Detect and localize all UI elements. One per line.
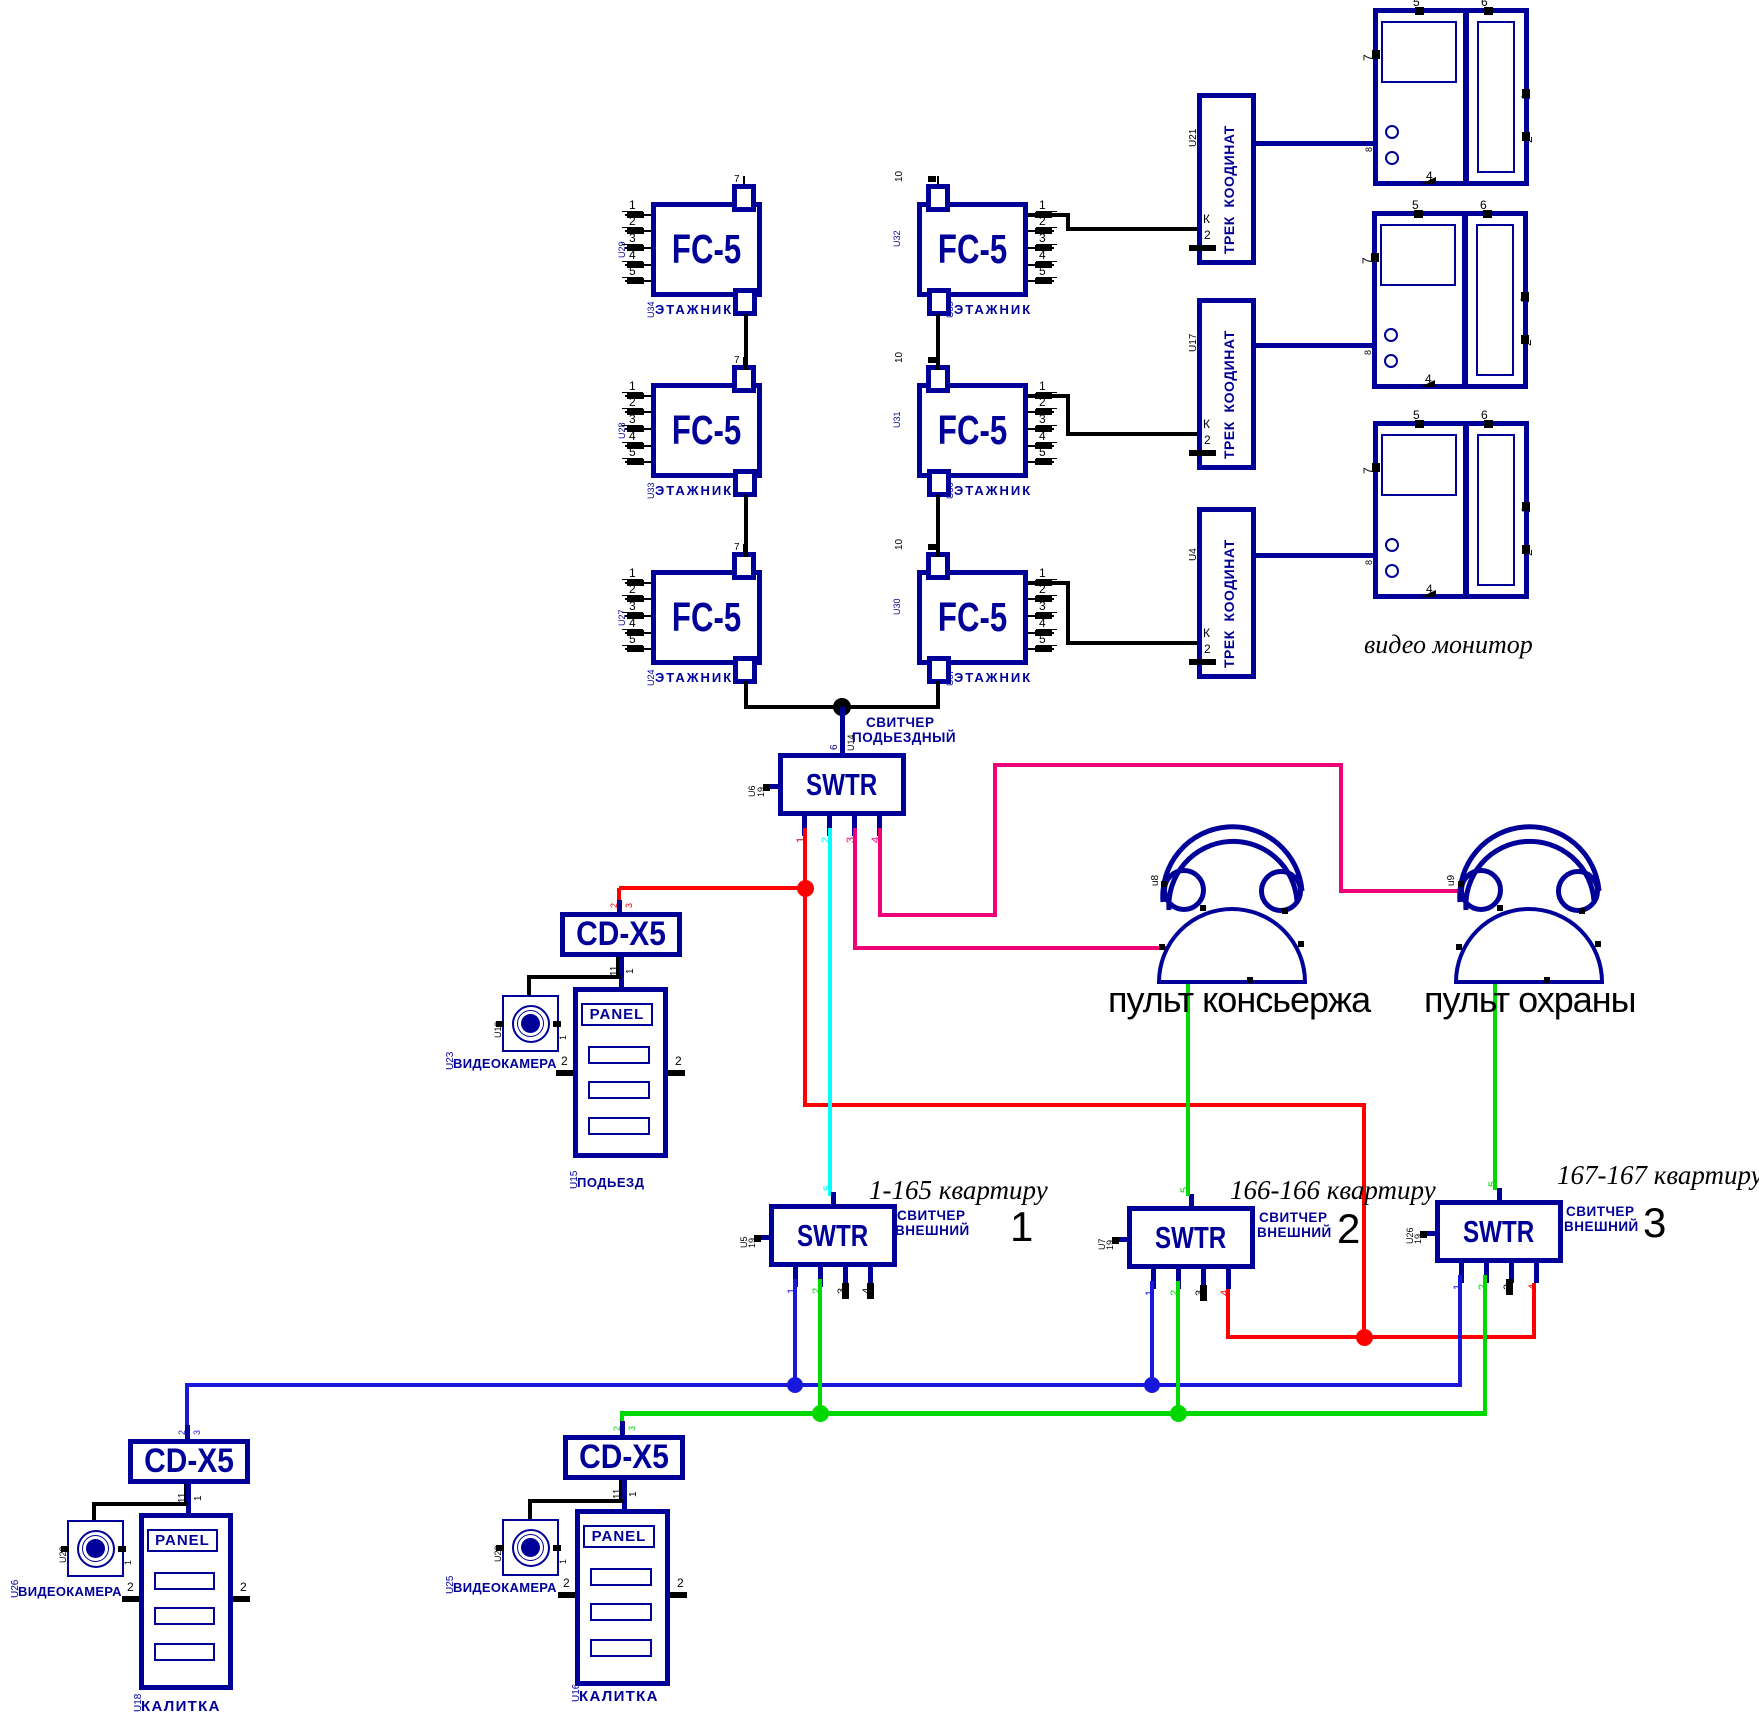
U27 top port pin lead bbox=[743, 544, 745, 552]
U4 pin К label bbox=[1203, 627, 1210, 639]
gate left camera outer ring bbox=[77, 1530, 115, 1568]
U28 bottom port designator U33 bbox=[647, 482, 656, 499]
U17 pin 2 stub bbox=[1189, 450, 1216, 456]
U32 pin 3 number bbox=[1039, 232, 1046, 244]
SWTR 2 pin 4 number bbox=[1220, 1290, 1231, 1296]
label ВНЕШНИЙ 2 bbox=[1257, 1226, 1332, 1240]
wire red to switcher 3 pin 4 bbox=[1532, 1283, 1536, 1337]
U31 label ЭТАЖНИК bbox=[954, 484, 1032, 497]
U21 designator U21 bbox=[1189, 129, 1199, 147]
red junction node 1 bbox=[797, 880, 814, 897]
monitor 3 pin 7 mark bbox=[1372, 463, 1380, 472]
U29 pin 1 lead bbox=[625, 214, 651, 216]
main SWTR bottom pin 2 stub bbox=[827, 816, 832, 836]
U32 pin 1 bar bbox=[1035, 212, 1052, 218]
entrance camera designator U23 bbox=[446, 1052, 456, 1070]
U27 pin 1 underline bbox=[622, 579, 643, 580]
label ВИДЕОКАМЕРА gate middle bbox=[453, 1581, 557, 1594]
U21 label ТРЕК КООДИНАТ bbox=[1222, 125, 1236, 254]
video monitor monitor 1 outer box bbox=[1373, 8, 1529, 186]
label ВИДЕОКАМЕРА entrance bbox=[453, 1057, 557, 1070]
monitor 3 pin 1 mark bbox=[1522, 502, 1530, 511]
SWTR 3 pin 1 number bbox=[1453, 1284, 1464, 1290]
U27 pin 2 lead bbox=[625, 598, 651, 600]
gate middle panel button slot 2 bbox=[590, 1603, 652, 1621]
label видео монитор bbox=[1364, 632, 1533, 658]
U27 pin 5 lead bbox=[625, 648, 651, 650]
monitor 2 pin 5 mark bbox=[1414, 210, 1423, 218]
U29 pin 2 underline bbox=[622, 227, 643, 228]
gate middle CD-X5 bottom pin label 11 bbox=[613, 1489, 623, 1499]
monitor 2 pin 1 label bbox=[1519, 296, 1531, 303]
U29 pin 1 underline bbox=[622, 211, 643, 212]
monitor 3 pin 7 label bbox=[1362, 467, 1374, 474]
SWTR 2 bottom pin 4 stub bbox=[1226, 1269, 1231, 1289]
U27 pin 4 bar bbox=[627, 630, 644, 636]
U28 pin 3 bar bbox=[627, 426, 644, 432]
concierge console handset designator u8 bbox=[1151, 875, 1161, 886]
U31 pin 5 lead bbox=[1028, 461, 1054, 463]
wire magenta down to guard bbox=[1339, 763, 1343, 893]
switcher SWTR 3 box bbox=[1435, 1200, 1563, 1263]
junction node entrance bus bbox=[833, 698, 851, 716]
wire switcher 2 pin1 blue down bbox=[1150, 1281, 1154, 1387]
switcher main SWTR box bbox=[778, 753, 906, 816]
U30 pin 1 lead bbox=[1028, 582, 1054, 584]
U4 pin 2 stub bbox=[1189, 659, 1216, 665]
video monitor monitor 3 outer box bbox=[1373, 421, 1529, 599]
switcher 2 left pin label 19 bbox=[1106, 1240, 1115, 1250]
monitor 2 pin 6 label bbox=[1480, 199, 1487, 211]
U28 pin 5 underline bbox=[622, 458, 643, 459]
wire gate left CD-X5 to camera segment b bbox=[92, 1502, 96, 1522]
SWTR 2 top pin stub bbox=[1189, 1194, 1194, 1206]
wire U31 pin1 to coordinate tracker segment b bbox=[1066, 394, 1070, 436]
gate middle panel left pin label 2 bbox=[563, 1577, 570, 1589]
entrance camera U9 lens bbox=[521, 1014, 540, 1033]
U27 bottom port bbox=[733, 656, 757, 684]
gate left panel right pin label 2 bbox=[240, 1581, 247, 1593]
U32 pin 5 number bbox=[1039, 265, 1046, 277]
U17 designator U17 bbox=[1189, 334, 1199, 352]
entrance panel button slot 3 bbox=[588, 1117, 650, 1135]
coordinate tracker U4 box bbox=[1197, 507, 1256, 679]
monitor 2 pin 2 label bbox=[1521, 339, 1533, 346]
gate left CD-X5 top pin stub bbox=[185, 1425, 190, 1439]
wire U31 to U30 riser bbox=[936, 495, 940, 557]
U27 pin 1 number bbox=[629, 567, 636, 579]
blue junction node 2 bbox=[1144, 1377, 1160, 1393]
monitor 3 pin 2 label bbox=[1522, 549, 1534, 556]
U29 pin 5 bar bbox=[627, 278, 644, 284]
gate left camera right pin mark bbox=[118, 1546, 126, 1552]
U31 pin 2 lead bbox=[1028, 411, 1054, 413]
SWTR 3 top pin stub bbox=[1497, 1188, 1502, 1200]
switcher 2 pin3 blob bbox=[1200, 1285, 1207, 1301]
U27 pin 3 lead bbox=[625, 615, 651, 617]
U27 pin 4 number bbox=[629, 617, 636, 629]
U30 designator U30 bbox=[893, 598, 902, 615]
SWTR 1 pin 4 number bbox=[862, 1288, 873, 1294]
monitor 3 screen bbox=[1381, 434, 1457, 496]
monitor 1 pin 1 label bbox=[1520, 93, 1532, 100]
U31 top port pin 10 label bbox=[895, 352, 905, 363]
monitor 2 handset slot bbox=[1476, 224, 1514, 376]
monitor 2 pin 7 mark bbox=[1371, 253, 1379, 262]
gate middle camera left pin mark bbox=[496, 1545, 504, 1551]
main SWTR bottom pin 4 stub bbox=[877, 816, 882, 836]
door unit gate middle CD-X5 CD-X5 box bbox=[563, 1435, 685, 1480]
U29 top port pin 7 label bbox=[734, 175, 740, 185]
gate left camera middle ring bbox=[82, 1535, 109, 1562]
wire switcher 1 pin1 blue down bbox=[793, 1279, 797, 1387]
label 1-165 квартиру bbox=[869, 1177, 1048, 1204]
switcher SWTR 2 box bbox=[1127, 1206, 1255, 1269]
SWTR 1 bottom pin 2 stub bbox=[818, 1267, 823, 1287]
big number 1 bbox=[1010, 1206, 1033, 1248]
U30 pin 2 number bbox=[1039, 583, 1046, 595]
gate left panel button slot 1 bbox=[154, 1572, 215, 1590]
main SWTR left pin stub bbox=[768, 784, 778, 789]
U32 label ЭТАЖНИК bbox=[954, 303, 1032, 316]
door unit gate left CD-X5 CD-X5 box bbox=[128, 1439, 250, 1484]
floor unit U31 FC-5 box bbox=[917, 383, 1028, 478]
gate middle CD-X5 top pin label b bbox=[628, 1426, 637, 1431]
gate middle camera lens bbox=[521, 1538, 540, 1557]
monitor 2 pin 2 mark bbox=[1521, 335, 1529, 344]
U31 pin 3 bar bbox=[1035, 426, 1052, 432]
label 166-166 квартиру bbox=[1230, 1177, 1436, 1204]
label СВИТЧЕР 2 bbox=[1259, 1211, 1327, 1225]
gate left camera left pin mark bbox=[61, 1546, 69, 1552]
U21 pin 2 label bbox=[1204, 229, 1211, 241]
wire entrance bus to main switcher bbox=[840, 707, 845, 753]
U31 pin 3 number bbox=[1039, 413, 1046, 425]
wire magenta to concierge console bbox=[853, 946, 1170, 950]
U32 pin 1 number bbox=[1039, 199, 1046, 211]
wire gate left CD-X5 to camera segment a bbox=[92, 1502, 188, 1506]
main SWTR pin 3 number bbox=[846, 837, 857, 843]
gate middle panel button slot 1 bbox=[590, 1568, 652, 1586]
SWTR 3 left pin mark bbox=[1420, 1231, 1427, 1238]
U30 pin 5 number bbox=[1039, 633, 1046, 645]
U32 pin 2 underline bbox=[1036, 227, 1057, 228]
main switcher designator U6 bbox=[748, 785, 757, 797]
switcher 2 designator U7 bbox=[1098, 1238, 1107, 1250]
SWTR 2 bottom pin 2 stub bbox=[1176, 1269, 1181, 1289]
U31 pin 2 number bbox=[1039, 396, 1046, 408]
gate left panel button slot 3 bbox=[154, 1643, 215, 1661]
U28 top port pin 7 label bbox=[734, 356, 740, 366]
gate left panel PANEL title box bbox=[147, 1529, 218, 1552]
wire U27 down to entrance bus bbox=[744, 681, 748, 709]
gate middle CD-X5 bottom pin stub bbox=[619, 1480, 625, 1500]
main SWTR pin 4 number bbox=[871, 837, 882, 843]
guard console handset designator u9 bbox=[1447, 875, 1457, 886]
monitor 3 pin 5 label bbox=[1413, 409, 1420, 421]
wire blue bus to gate CD-X5 left bbox=[185, 1385, 189, 1432]
U31 bottom port designator U36 bbox=[946, 482, 955, 499]
U31 pin 3 lead bbox=[1028, 428, 1054, 430]
SWTR 3 bottom pin 1 stub bbox=[1459, 1263, 1464, 1283]
label КАЛИТКА middle bbox=[579, 1689, 659, 1704]
U29 label ЭТАЖНИК bbox=[655, 303, 733, 316]
SWTR 1 bottom pin 4 stub bbox=[868, 1267, 873, 1287]
U30 label ЭТАЖНИК bbox=[954, 671, 1032, 684]
gate left panel button slot 2 bbox=[154, 1607, 215, 1625]
wire U30 pin1 to coordinate tracker segment a bbox=[1028, 581, 1068, 585]
gate left CD-X5 bottom pin stub bbox=[184, 1484, 190, 1504]
U30 bottom port designator U37 bbox=[946, 669, 955, 686]
wire red to switcher 2 pin 4 bbox=[1226, 1289, 1230, 1337]
U32 pin 4 underline bbox=[1036, 261, 1057, 262]
U31 pin 5 number bbox=[1039, 446, 1046, 458]
wire magenta up bbox=[993, 763, 997, 917]
U29 pin 4 lead bbox=[625, 264, 651, 266]
gate middle panel designator U16 bbox=[572, 1684, 582, 1702]
wire entrance CD-X5 to panel bbox=[619, 957, 624, 992]
entrance panel designator U15 bbox=[570, 1171, 580, 1189]
U17 pin 2 label bbox=[1204, 434, 1211, 446]
main SWTR pin 1 number bbox=[796, 837, 807, 843]
floor unit U30 FC-5 box bbox=[917, 570, 1028, 665]
label ВИДЕОКАМЕРА gate left bbox=[18, 1585, 122, 1598]
monitor 1 handset slot bbox=[1477, 21, 1515, 173]
U31 pin 2 bar bbox=[1035, 409, 1052, 415]
U30 pin 3 number bbox=[1039, 600, 1046, 612]
U27 pin 3 bar bbox=[627, 613, 644, 619]
SWTR 2 bottom pin 3 stub bbox=[1201, 1269, 1206, 1289]
U32 top port pin lead bbox=[937, 176, 939, 184]
U28 pin 3 lead bbox=[625, 428, 651, 430]
gate middle camera right pin label bbox=[559, 1558, 568, 1563]
U30 pin 1 bar bbox=[1035, 580, 1052, 586]
monitor 3 pin 8 label bbox=[1365, 560, 1374, 565]
U32 pin 2 lead bbox=[1028, 230, 1054, 232]
entrance CD-X5 top pin stub bbox=[617, 900, 622, 912]
monitor 3 knob 1 bbox=[1385, 538, 1399, 552]
panel gate left panel box bbox=[139, 1513, 233, 1690]
wire gate middle CD-X5 to panel bbox=[622, 1480, 627, 1513]
U28 pin 1 number bbox=[629, 380, 636, 392]
gate middle CD-X5 bottom pin label 1 bbox=[629, 1491, 639, 1497]
entrance CD-X5 bottom pin label 1 bbox=[626, 968, 636, 974]
entrance camera U9 left pin mark bbox=[496, 1021, 504, 1027]
wire tracker U4 to monitor 3 bbox=[1251, 553, 1374, 558]
red junction node 2 bbox=[1356, 1329, 1373, 1346]
SWTR 3 bottom pin 2 stub bbox=[1484, 1263, 1489, 1283]
U30 pin 5 lead bbox=[1028, 648, 1054, 650]
U28 pin 2 bar bbox=[627, 409, 644, 415]
blue junction node 1 bbox=[787, 1377, 803, 1393]
U32 pin 5 bar bbox=[1035, 278, 1052, 284]
wire U32 to U31 riser bbox=[936, 314, 940, 370]
switcher 3 left pin label 19 bbox=[1414, 1234, 1423, 1244]
panel gate middle panel box bbox=[575, 1509, 670, 1686]
U27 pin 2 number bbox=[629, 583, 636, 595]
entrance camera U9 right pin mark bbox=[553, 1021, 561, 1027]
U31 pin 1 underline bbox=[1036, 392, 1057, 393]
U27 pin 5 bar bbox=[627, 646, 644, 652]
switcher 1 left pin label 19 bbox=[748, 1238, 757, 1248]
monitor 2 divider bbox=[1462, 216, 1468, 384]
switcher 1 designator U5 bbox=[740, 1236, 749, 1248]
wire magenta jog right bbox=[878, 913, 997, 917]
main SWTR top pin stub bbox=[840, 741, 845, 753]
wire magenta top run bbox=[993, 763, 1343, 767]
coordinate tracker U17 box bbox=[1197, 298, 1256, 470]
SWTR 2 pin 2 number bbox=[1170, 1290, 1181, 1296]
main SWTR bottom pin 3 stub bbox=[852, 816, 857, 836]
gate middle camera left pin designator U20 bbox=[494, 1545, 503, 1562]
wire gate left CD-X5 to panel bbox=[186, 1484, 191, 1517]
U32 top port pin 10 label bbox=[895, 171, 905, 182]
gate left CD-X5 bottom pin label 1 bbox=[194, 1495, 204, 1501]
entrance panel left pin label 2 bbox=[561, 1055, 568, 1067]
wire main pin1 red down bbox=[803, 828, 807, 890]
gate middle camera outer ring bbox=[512, 1529, 550, 1567]
wire U30 pin1 to coordinate tracker segment b bbox=[1066, 581, 1070, 645]
U27 pin 2 underline bbox=[622, 595, 643, 596]
U29 pin 4 underline bbox=[622, 261, 643, 262]
U30 pin 3 underline bbox=[1036, 612, 1057, 613]
monitor 2 knob 1 bbox=[1384, 328, 1398, 342]
U4 label ТРЕК КООДИНАТ bbox=[1222, 539, 1236, 668]
wire magenta into guard console bbox=[1339, 889, 1461, 893]
monitor 2 knob 2 bbox=[1384, 354, 1398, 368]
monitor 2 pin 6 mark bbox=[1483, 210, 1492, 218]
U30 top port pin lead bbox=[937, 544, 939, 552]
U30 pin 4 underline bbox=[1036, 629, 1057, 630]
wire main pin3 magenta down bbox=[853, 828, 857, 950]
monitor 1 pin 7 label bbox=[1362, 54, 1374, 61]
wire U30 pin1 to coordinate tracker segment c bbox=[1066, 641, 1197, 645]
wire gate middle CD-X5 to camera segment a bbox=[528, 1499, 624, 1503]
gate middle panel left pin bar bbox=[558, 1592, 575, 1598]
U29 pin 3 lead bbox=[625, 247, 651, 249]
U31 pin 4 bar bbox=[1035, 443, 1052, 449]
U29 pin 5 lead bbox=[625, 280, 651, 282]
U30 pin 2 underline bbox=[1036, 595, 1057, 596]
label ВНЕШНИЙ 1 bbox=[895, 1224, 970, 1238]
gate middle CD-X5 top pin label a bbox=[613, 1426, 622, 1431]
wire red to entrance CD-X5 bbox=[619, 886, 805, 890]
wire U29 to U28 riser bbox=[744, 314, 748, 370]
monitor 2 screen bbox=[1380, 224, 1456, 286]
U29 designator U29 bbox=[618, 241, 627, 258]
panel entrance panel box bbox=[573, 987, 668, 1158]
U29 pin 1 bar bbox=[627, 212, 644, 218]
label КАЛИТКА left bbox=[141, 1699, 221, 1714]
wire U31 pin1 to coordinate tracker segment c bbox=[1066, 432, 1197, 436]
U29 pin 4 number bbox=[629, 249, 636, 261]
wire red main riser bbox=[803, 888, 807, 1107]
monitor 3 pin 6 label bbox=[1481, 409, 1488, 421]
SWTR 2 pin 3 number bbox=[1195, 1290, 1206, 1296]
monitor 1 pin 5 label bbox=[1413, 0, 1420, 8]
U32 pin 4 bar bbox=[1035, 262, 1052, 268]
monitor 1 divider bbox=[1463, 13, 1469, 181]
U28 pin 4 underline bbox=[622, 442, 643, 443]
wire entrance CD-X5 to camera segment a bbox=[527, 975, 621, 979]
U30 pin 5 bar bbox=[1035, 646, 1052, 652]
U29 pin 5 number bbox=[629, 265, 636, 277]
entrance camera U9 middle ring bbox=[517, 1010, 544, 1037]
switcher 3 pin3 blob bbox=[1506, 1279, 1513, 1295]
floor unit U27 FC-5 box bbox=[651, 570, 762, 665]
monitor 1 screen bbox=[1381, 21, 1457, 83]
coordinate tracker U21 box bbox=[1197, 93, 1256, 265]
label СВИТЧЕР 1 bbox=[897, 1209, 965, 1223]
wire U32 pin1 to coordinate tracker segment a bbox=[1028, 213, 1068, 217]
monitor 1 pin 6 label bbox=[1481, 0, 1488, 8]
gate left camera lens bbox=[86, 1539, 105, 1558]
U32 bottom port designator U35 bbox=[946, 301, 955, 318]
monitor 1 pin 6 mark bbox=[1484, 7, 1493, 15]
SWTR 3 pin 3 number bbox=[1503, 1284, 1514, 1290]
U31 pin 4 number bbox=[1039, 430, 1046, 442]
wire U30 down to entrance bus bbox=[936, 681, 940, 709]
U29 pin 2 number bbox=[629, 215, 636, 227]
monitor 1 pin 4 mark bbox=[1421, 177, 1436, 184]
wire switcher 2 pin2 green down bbox=[1176, 1281, 1180, 1415]
monitor 3 divider bbox=[1463, 426, 1469, 594]
U29 pin 3 underline bbox=[622, 244, 643, 245]
U27 label ЭТАЖНИК bbox=[655, 671, 733, 684]
U30 pin 1 number bbox=[1039, 567, 1046, 579]
SWTR 1 pin 2 number bbox=[812, 1288, 823, 1294]
U31 bottom port bbox=[927, 469, 951, 497]
U27 top port bbox=[732, 552, 756, 580]
label ПОДЬЕЗД bbox=[577, 1176, 644, 1189]
monitor 3 pin 1 label bbox=[1520, 506, 1532, 513]
wire tracker U21 to monitor 1 bbox=[1251, 141, 1374, 146]
U27 pin 3 number bbox=[629, 600, 636, 612]
video camera gate middle camera box bbox=[502, 1519, 559, 1576]
label ВНЕШНИЙ 3 bbox=[1564, 1220, 1639, 1234]
entrance camera U9 right pin label bbox=[559, 1034, 568, 1039]
U17 label ТРЕК КООДИНАТ bbox=[1222, 330, 1236, 459]
U28 pin 5 lead bbox=[625, 461, 651, 463]
entrance panel left pin bar bbox=[556, 1070, 573, 1076]
U29 pin 1 number bbox=[629, 199, 636, 211]
U30 pin 4 bar bbox=[1035, 630, 1052, 636]
main switcher pin 6 label bbox=[830, 744, 840, 750]
wire red down to red node bbox=[1362, 1105, 1366, 1339]
U30 pin 2 lead bbox=[1028, 598, 1054, 600]
U28 pin 2 number bbox=[629, 396, 636, 408]
U32 pin 2 bar bbox=[1035, 228, 1052, 234]
U29 pin 2 bar bbox=[627, 228, 644, 234]
wire red cross to right bbox=[803, 1103, 1366, 1107]
wire U28 to U27 riser bbox=[744, 495, 748, 557]
switcher 1 pin4 blob bbox=[867, 1283, 874, 1299]
U32 top port mark bbox=[928, 176, 936, 182]
video camera gate left camera box bbox=[67, 1520, 124, 1577]
U28 label ЭТАЖНИК bbox=[655, 484, 733, 497]
entrance panel PANEL title box bbox=[581, 1003, 653, 1026]
label СВИТЧЕР 3 bbox=[1566, 1205, 1634, 1219]
door unit entrance CD-X5 CD-X5 box bbox=[560, 912, 682, 957]
SWTR 1 pin 3 number bbox=[837, 1288, 848, 1294]
monitor 3 pin 5 mark bbox=[1415, 420, 1424, 428]
U28 pin 4 lead bbox=[625, 445, 651, 447]
gate left camera left pin designator U22 bbox=[59, 1546, 68, 1563]
U28 pin 4 bar bbox=[627, 443, 644, 449]
U29 pin 4 bar bbox=[627, 262, 644, 268]
switcher 2 top pin label 5 bbox=[1180, 1187, 1191, 1193]
U30 top port bbox=[926, 552, 950, 580]
